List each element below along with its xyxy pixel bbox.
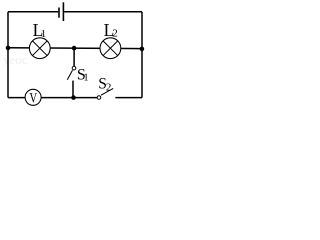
- node bottom (junction dot): [71, 95, 76, 100]
- label S2: [98, 76, 111, 94]
- wire top-right segment: [64, 11, 142, 13]
- node middle (junction dot): [72, 46, 77, 51]
- wire right border: [141, 12, 143, 98]
- wire middle branch upper: [73, 48, 75, 66]
- label L2: [104, 20, 118, 40]
- battery B1 short plate (negative): [58, 8, 60, 18]
- label S1: [77, 66, 89, 83]
- wire top-left segment: [8, 11, 58, 13]
- label L1: [33, 20, 47, 40]
- node right (junction dot): [140, 47, 145, 52]
- voltmeter V: [25, 89, 41, 106]
- wire middle horizontal: [8, 47, 142, 50]
- svg-text:yeoc: yeoc: [3, 52, 28, 67]
- node left (junction dot): [6, 46, 11, 51]
- wire middle branch lower: [72, 81, 74, 98]
- svg-text:2: 2: [106, 81, 112, 93]
- svg-text:1: 1: [83, 73, 88, 84]
- switch S1: [67, 66, 75, 79]
- wire bottom-right segment: [115, 97, 142, 99]
- wire bottom middle segment: [41, 97, 97, 99]
- wire left border: [7, 12, 9, 98]
- switch S2: [97, 88, 113, 99]
- battery B1 long plate (positive): [62, 2, 64, 21]
- wire bottom-left segment: [8, 97, 25, 99]
- svg-text:V: V: [29, 89, 37, 106]
- lamp L2: [100, 38, 121, 59]
- svg-text:1: 1: [41, 28, 47, 40]
- svg-text:2: 2: [112, 28, 118, 40]
- lamp L1: [29, 38, 50, 59]
